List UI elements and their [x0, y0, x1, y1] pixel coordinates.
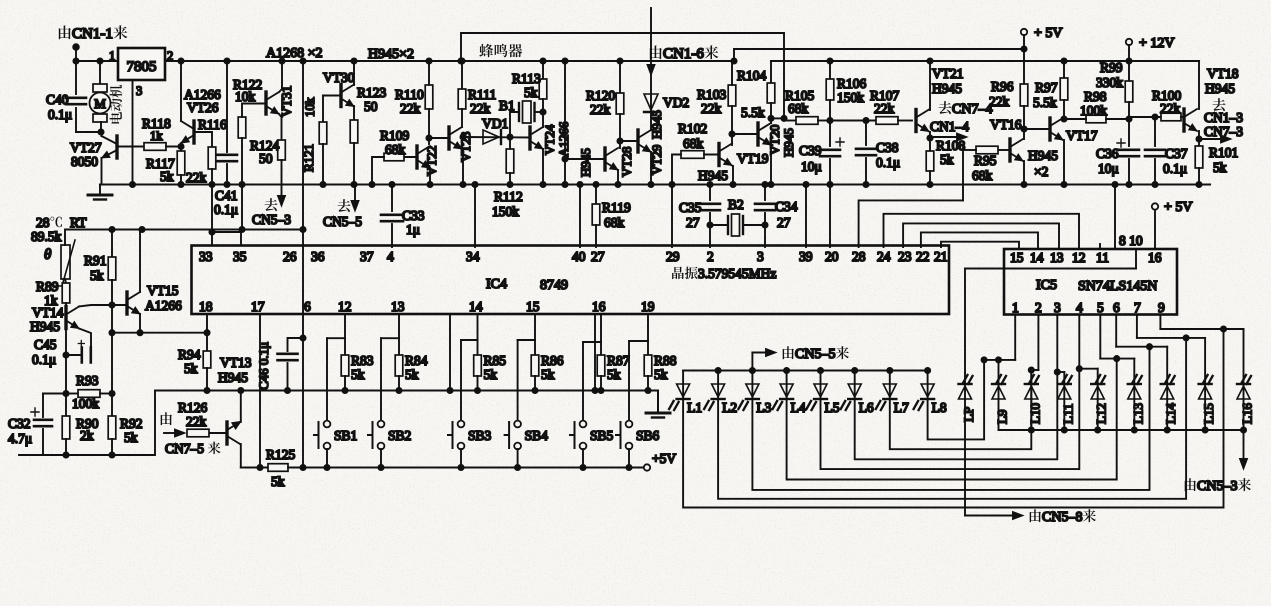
svg-text:SB3: SB3: [468, 428, 492, 443]
pushbutton SB4: [517, 340, 519, 421]
transistor VT14 H945: [64, 307, 67, 329]
svg-text:L14: L14: [1163, 403, 1178, 424]
svg-text:CN5–5: CN5–5: [795, 347, 835, 362]
IC5 pin 11 stub: [1099, 244, 1101, 249]
svg-text:150k: 150k: [492, 204, 519, 219]
svg-text:68k: 68k: [604, 215, 625, 230]
svg-text:VT22: VT22: [424, 146, 439, 176]
svg-text:R121: R121: [301, 144, 316, 172]
VT13 emitter up to bus: [240, 391, 242, 423]
svg-text:R111: R111: [468, 87, 496, 102]
label 由CN1-6来: [650, 45, 662, 59]
svg-text:VD1: VD1: [482, 116, 508, 131]
wire: R125 / +5V bottom line: [241, 467, 268, 469]
arrow to CN5-5 below rail: [354, 185, 356, 203]
ground symbol at right end of bus: [646, 412, 670, 415]
resistor R89 1k: [65, 279, 66, 283]
wire: L8 cathode bus to riser: [928, 360, 985, 440]
wire x=66 column: [65, 303, 67, 355]
svg-text:24: 24: [877, 249, 891, 264]
resistor R91 5k: [111, 230, 113, 258]
svg-text:VT16: VT16: [990, 117, 1022, 132]
wire R99 bottom node: [1128, 102, 1130, 146]
buzzer feed line (top): [460, 33, 462, 61]
transistor VT29 H945: [636, 130, 639, 152]
svg-text:14: 14: [469, 299, 483, 314]
svg-text:37: 37: [360, 249, 374, 264]
svg-text:5k: 5k: [405, 367, 419, 382]
wire: IC4 pin 18 column: [206, 314, 208, 333]
wire VT26 collector to +5V rail: [180, 61, 182, 121]
wire: L2 cathode bus to riser: [718, 338, 1186, 499]
capacitor C39 10u: [820, 150, 840, 156]
svg-text:C41: C41: [215, 188, 238, 203]
resistor R109 68k: [384, 156, 417, 158]
svg-text:10k: 10k: [302, 97, 317, 117]
LED L4: [784, 368, 789, 373]
svg-text:2k: 2k: [80, 428, 94, 443]
svg-text:H945: H945: [1028, 148, 1058, 163]
svg-text:22k: 22k: [1160, 101, 1181, 116]
svg-text:R120: R120: [586, 88, 616, 103]
transistor VT27 8050 (mirrored): [115, 136, 118, 158]
wire: rail to IC4 pin 20: [829, 185, 831, 248]
wire: ground rail to IC5 pins 8 10: [1112, 182, 1117, 187]
svg-text:θ: θ: [44, 247, 52, 263]
svg-text:CN1-6: CN1-6: [663, 46, 704, 62]
svg-text:H945: H945: [1205, 81, 1235, 96]
regulator 7805: [118, 48, 165, 80]
VT16 emitter to rail: [1023, 161, 1025, 185]
IC IC5 SN74LS145N box: [1004, 249, 1177, 315]
label crystal 晶振 3.579545MHz: [672, 267, 684, 279]
svg-text:×2: ×2: [1034, 164, 1048, 179]
svg-text:VT20: VT20: [767, 125, 782, 155]
resistor R121: [322, 96, 324, 123]
wire: IC4 pin 6 column C46 tap: [300, 465, 305, 470]
pushbutton SB3: [460, 340, 462, 421]
diode VD1: [463, 136, 530, 139]
resistor R120 22k: [617, 58, 622, 63]
resistor R85 5k: [477, 340, 479, 355]
resistor R100 22k: [1129, 116, 1161, 118]
resistor R83 5k: [344, 338, 346, 355]
svg-text:7: 7: [1134, 300, 1141, 315]
svg-text:22k: 22k: [400, 101, 421, 116]
VT20 emitter to rail: [770, 145, 772, 185]
svg-text:R88: R88: [654, 353, 677, 368]
svg-text:R93: R93: [76, 373, 99, 388]
wire: IC5 pin 1 jog to L9: [1014, 315, 1016, 360]
svg-text:7805: 7805: [127, 59, 157, 75]
ground rail (middle horizontal): [100, 183, 1210, 185]
svg-text:C39: C39: [799, 143, 822, 158]
svg-text:R84: R84: [405, 353, 428, 368]
svg-text:C35: C35: [679, 200, 702, 215]
wire: IC4 pin 23 to IC5 pin 13: [903, 223, 1059, 249]
svg-text:CN5–3: CN5–3: [252, 212, 291, 227]
wire: IC4 pin 24 to IC5 pin 12: [884, 214, 1080, 249]
svg-text:L8: L8: [932, 400, 947, 415]
resistor R125 5k: [268, 464, 288, 472]
wire VT31 collector to rail: [279, 61, 282, 92]
svg-text:50: 50: [259, 151, 273, 166]
svg-text:SB6: SB6: [636, 428, 660, 443]
wire: pin28 route up to R95/VT16 base node: [962, 148, 964, 200]
svg-text:5k: 5k: [607, 367, 621, 382]
svg-text:22k: 22k: [186, 170, 207, 185]
capacitor C32 4.7u: [43, 393, 66, 395]
VT14 collector to VT15 base: [79, 305, 127, 307]
svg-text:0.1μ: 0.1μ: [876, 155, 900, 170]
svg-text:R98: R98: [1084, 89, 1107, 104]
svg-text:1: 1: [109, 49, 115, 63]
LED L13: [1133, 359, 1135, 399]
wire: IC5 pin 2 jog to L10: [1037, 315, 1039, 371]
svg-text:68k: 68k: [972, 168, 993, 183]
svg-text:CN5–5: CN5–5: [323, 214, 362, 229]
resistor R124 50: [279, 114, 282, 140]
svg-text:0.1μ: 0.1μ: [1163, 161, 1187, 176]
svg-text:4: 4: [387, 249, 394, 264]
svg-text:R110: R110: [395, 87, 424, 102]
resistor R97 5.5k: [1061, 58, 1066, 63]
wire: IC4 key pin column 3: [534, 314, 536, 340]
svg-text:100k: 100k: [1080, 103, 1107, 118]
svg-text:10μ: 10μ: [1098, 161, 1119, 176]
VT21 collector to +12V rail: [929, 61, 931, 110]
svg-text:5k: 5k: [351, 367, 365, 382]
svg-text:5k: 5k: [484, 367, 498, 382]
svg-text:L11: L11: [1060, 404, 1075, 424]
label 蜂鸣器: [479, 44, 493, 58]
LED L8: [925, 368, 930, 373]
svg-text:0.1μ: 0.1μ: [32, 352, 56, 367]
wire: RT top line (y=229.5): [65, 230, 303, 246]
wire: IC5 pin 6 jog to L14: [1115, 315, 1117, 347]
resistor R106 150k: [827, 58, 832, 63]
svg-text:VT15: VT15: [147, 283, 179, 298]
resistor R87 5k: [600, 342, 602, 355]
VT13 lower lead to R125 line: [240, 444, 242, 468]
resistor R113 5k: [540, 58, 545, 63]
wire: unlabeled taps to bus: [449, 314, 451, 391]
svg-text:R113: R113: [512, 71, 541, 86]
crystal B2 symbol: [710, 224, 728, 226]
resistor R110 22k: [426, 58, 431, 63]
svg-text:SN74LS145N: SN74LS145N: [1078, 279, 1157, 294]
svg-text:R102: R102: [678, 121, 707, 136]
pushbutton SB6: [628, 341, 630, 421]
capacitor C45 0.1u: [82, 348, 91, 363]
svg-text:8 10: 8 10: [1119, 233, 1143, 248]
svg-text:CN1–4: CN1–4: [930, 119, 969, 134]
wire: IC5 pin 7 jog to L15: [1136, 315, 1138, 338]
arrow to CN5-3 below R124: [281, 160, 283, 197]
svg-text:22k: 22k: [874, 101, 895, 116]
svg-text:22k: 22k: [186, 414, 207, 429]
wire: IC4 key pin column 5: [647, 314, 649, 341]
svg-text:R106: R106: [837, 76, 867, 91]
svg-text:9: 9: [1158, 300, 1165, 315]
wire: rail to IC4 pin 29: [671, 185, 673, 248]
svg-text:RT: RT: [70, 215, 87, 230]
svg-text:23: 23: [898, 249, 912, 264]
svg-text:22k: 22k: [590, 102, 611, 117]
wire: pin 18 line y=332.7: [112, 332, 207, 334]
svg-text:68k: 68k: [385, 142, 406, 157]
wire: 7805 pin3 to ground rail: [132, 80, 134, 185]
svg-text:R95: R95: [974, 153, 997, 168]
VT23 emitter to rail and VD1 left: [462, 149, 464, 185]
wire: input from CN1-1 terminal stub: [73, 44, 79, 50]
arrow/label 由CN5-5来 feed: [751, 353, 753, 371]
svg-text:R108: R108: [936, 138, 966, 153]
svg-text:10k: 10k: [235, 89, 256, 104]
svg-text:C37: C37: [1165, 146, 1188, 161]
pushbutton SB1: [326, 338, 328, 421]
svg-text:R109: R109: [380, 128, 410, 143]
svg-text:1μ: 1μ: [406, 222, 420, 237]
svg-text:36: 36: [311, 249, 325, 264]
svg-text:H945: H945: [932, 81, 962, 96]
svg-text:R101: R101: [1209, 145, 1238, 160]
svg-text:L1: L1: [687, 400, 702, 415]
capacitor C46 0.1u: [288, 338, 304, 351]
svg-text:L9: L9: [995, 410, 1010, 424]
svg-text:R112: R112: [494, 189, 523, 204]
resistor R123 50: [353, 106, 355, 120]
svg-text:150k: 150k: [837, 90, 864, 105]
transistor VT18 H945: [1182, 109, 1185, 131]
svg-text:11: 11: [1096, 250, 1109, 265]
svg-text:15: 15: [526, 299, 540, 314]
resistor R111 22k: [459, 58, 464, 63]
svg-text:R89: R89: [36, 279, 59, 294]
svg-text:13: 13: [1050, 250, 1064, 265]
svg-text:12: 12: [1072, 250, 1086, 265]
transistor VT28 H945: [603, 148, 606, 170]
svg-text:3: 3: [1054, 300, 1061, 315]
svg-text:H945×2: H945×2: [368, 47, 414, 62]
VT15 collector up to RT line: [139, 230, 141, 293]
resistor R118 1k: [117, 146, 144, 148]
svg-text:6: 6: [304, 299, 311, 314]
svg-text:R94: R94: [178, 347, 201, 362]
transistor VT22: [415, 146, 418, 168]
svg-text:68k: 68k: [683, 136, 704, 151]
svg-text:26: 26: [283, 249, 297, 264]
resistor R96 22k: [1023, 49, 1025, 84]
svg-text:5k: 5k: [654, 367, 668, 382]
svg-text:R92: R92: [120, 416, 143, 431]
wire: motor/C40 node to VT27 collector: [76, 131, 101, 133]
svg-text:B1: B1: [499, 98, 515, 113]
svg-text:19: 19: [641, 299, 655, 314]
svg-text:16: 16: [592, 299, 606, 314]
wire: keyboard common bus y=390.5: [155, 391, 658, 412]
resistor R122 10k: [238, 117, 246, 138]
svg-text:L13: L13: [1130, 403, 1145, 424]
svg-text:VT24: VT24: [542, 124, 557, 155]
svg-text:CN5–3: CN5–3: [1197, 479, 1237, 494]
svg-text:H945: H945: [578, 148, 593, 177]
LED L7: [887, 368, 892, 373]
capacitor C41 0.1u: [224, 58, 229, 63]
LED L14: [1166, 347, 1168, 399]
svg-text:C40: C40: [46, 92, 69, 107]
wire: IC4 pin 28 jog to R95 node: [859, 200, 963, 247]
svg-text:27: 27: [777, 215, 791, 230]
svg-text:R125: R125: [266, 447, 296, 462]
svg-text:R86: R86: [541, 353, 564, 368]
wire: IC5 pin 4 jog to L12: [1078, 315, 1080, 369]
svg-text:2: 2: [167, 49, 173, 63]
svg-text:330k: 330k: [1096, 75, 1123, 90]
wire: L6 cathode bus to riser: [855, 372, 1058, 459]
pushbutton SB2: [380, 338, 382, 421]
svg-text:35: 35: [233, 249, 247, 264]
resistor R108 5k: [929, 138, 931, 151]
LED L3: [750, 368, 755, 373]
resistor R88 5k: [647, 341, 649, 355]
resistor R101 5k: [1198, 139, 1200, 146]
pushbutton SB5: [582, 342, 584, 421]
wire: IC4 key pin column 2: [477, 314, 479, 340]
svg-text:H945: H945: [218, 370, 248, 385]
resistor R84 5k: [398, 338, 400, 355]
wire: L4 cathode bus to riser: [787, 359, 1117, 480]
VT15 emitter to pin18 line: [139, 314, 141, 333]
svg-text:8749: 8749: [540, 278, 568, 293]
VT24 emitter to rail: [542, 149, 544, 185]
svg-text:C32: C32: [8, 416, 31, 431]
LED L6: [852, 368, 857, 373]
+12V top rail (right section): [771, 60, 1199, 62]
svg-text:R83: R83: [351, 353, 374, 368]
svg-text:6: 6: [1113, 300, 1120, 315]
VT14 emitter down to C45: [79, 329, 91, 351]
resistor R98 100k: [1086, 115, 1106, 123]
svg-text:5: 5: [1097, 300, 1104, 315]
svg-text:C45: C45: [34, 337, 57, 352]
svg-text:5k: 5k: [90, 268, 104, 283]
wire: IC5 pin 3 jog to L11: [1056, 315, 1058, 373]
svg-text:R91: R91: [84, 253, 107, 268]
wire: IC4 key pin column 1: [398, 314, 400, 338]
svg-text:L16: L16: [1240, 403, 1255, 424]
resistor R126 22k with CN7-5 arrow: [209, 432, 227, 434]
svg-text:R103: R103: [697, 87, 727, 102]
svg-text:+ 5V: + 5V: [1034, 26, 1063, 41]
svg-text:5.5k: 5.5k: [741, 105, 765, 120]
VT19 emitter to rail: [732, 166, 734, 185]
svg-text:3: 3: [136, 84, 142, 98]
svg-text:27: 27: [591, 249, 605, 264]
wire: IC4 key pin column 0: [344, 314, 346, 338]
svg-text:A1268 ×2: A1268 ×2: [266, 46, 323, 61]
svg-text:VT17: VT17: [1066, 128, 1098, 143]
svg-text:5k: 5k: [184, 361, 198, 376]
svg-text:R97: R97: [1035, 80, 1058, 95]
transistor VT17: [1063, 100, 1065, 119]
svg-text:VD2: VD2: [663, 95, 689, 110]
wire: L1-L8 anode bus: [683, 370, 928, 372]
svg-text:R87: R87: [607, 353, 630, 368]
resistor R93 100k: [78, 390, 100, 398]
svg-text:2: 2: [707, 249, 714, 264]
svg-text:LP: LP: [961, 407, 976, 422]
svg-text:3: 3: [757, 249, 764, 264]
svg-text:VT21: VT21: [932, 66, 964, 81]
svg-text:+ 5V: + 5V: [1164, 200, 1193, 215]
capacitor C40: [75, 61, 77, 94]
resistor R86 5k: [534, 340, 536, 355]
wire: IC4 pin 22 to IC5 pin 14: [921, 232, 1038, 249]
label 由CN1-1来: [59, 25, 71, 39]
svg-text:22: 22: [916, 249, 930, 264]
svg-text:R99: R99: [1100, 60, 1123, 75]
wire: rail to IC4 pin 34: [472, 182, 477, 187]
svg-text:8050: 8050: [71, 154, 98, 169]
svg-text:VT14: VT14: [32, 305, 64, 320]
svg-text:13: 13: [391, 299, 405, 314]
wire: IC5 pin 8 jog to L16: [1159, 315, 1161, 330]
svg-text:17: 17: [251, 299, 265, 314]
svg-text:CN1-1: CN1-1: [72, 26, 113, 42]
wire: jog to IC4 pin 35: [212, 232, 241, 246]
motor M (电动机): [97, 58, 102, 63]
svg-text:C36: C36: [1096, 146, 1119, 161]
LED L11: [1063, 372, 1065, 399]
svg-text:IC5: IC5: [1036, 278, 1057, 293]
wire R103 bottom to VT19 collector node: [731, 106, 733, 145]
svg-text:100k: 100k: [72, 396, 99, 411]
svg-text:C33: C33: [402, 208, 425, 223]
svg-text:C34: C34: [775, 199, 798, 214]
svg-text:VT30: VT30: [323, 70, 355, 85]
svg-text:R96: R96: [991, 79, 1014, 94]
svg-text:14: 14: [1030, 250, 1044, 265]
wire: L3 cathode bus to riser: [752, 347, 1149, 490]
svg-text:18: 18: [199, 299, 213, 314]
svg-text:+5V: +5V: [652, 451, 676, 466]
transistor VT20 H945: [770, 103, 772, 118]
svg-text:5.5k: 5.5k: [1033, 95, 1057, 110]
svg-text:H945: H945: [649, 110, 664, 139]
ground symbol at left end of rail: [99, 185, 101, 194]
wire R110 to VT22 collector / VT23 base: [428, 109, 430, 144]
svg-text:20: 20: [825, 249, 839, 264]
svg-text:IC4: IC4: [486, 277, 507, 292]
svg-text:H945: H945: [781, 128, 796, 157]
wire: IC4 key pin column 4: [600, 314, 602, 342]
LED L16: [1243, 329, 1245, 399]
svg-text:0.1μ: 0.1μ: [48, 107, 72, 122]
svg-text:16: 16: [1148, 250, 1162, 265]
wire: IC4 pin 17 column down to R125 line: [259, 314, 261, 468]
svg-text:CN7–4: CN7–4: [952, 102, 992, 117]
capacitor C37 0.1u: [1152, 114, 1157, 119]
VT17 emitter to rail: [1063, 140, 1065, 185]
VT29 base to R120/VT28 node: [620, 140, 638, 142]
transistor VT24 A1266: [542, 99, 544, 127]
capacitor C34 27: [762, 182, 767, 187]
svg-text:27: 27: [686, 215, 700, 230]
resistor R94 5k: [206, 333, 208, 351]
wire: rail to IC4 pin 40: [577, 182, 582, 187]
svg-text:CN5–8: CN5–8: [1042, 510, 1082, 525]
